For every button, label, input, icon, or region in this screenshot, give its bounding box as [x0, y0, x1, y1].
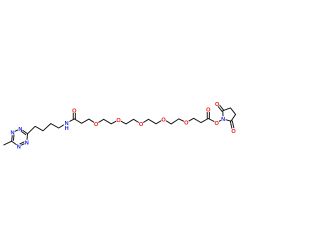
chain tetrazine to NH [28, 123, 67, 134]
tetrazine N2 label [10, 131, 14, 137]
ester C-O bridge bond [208, 119, 216, 123]
ether O2 label [116, 118, 121, 124]
ether O4 label [161, 117, 166, 123]
svg-text:O: O [231, 129, 236, 135]
svg-text:O: O [161, 117, 166, 123]
svg-text:N: N [18, 127, 22, 133]
O-N bond [217, 119, 223, 123]
succinimide bottom O label [231, 129, 236, 135]
svg-text:N: N [17, 145, 21, 151]
tetrazine N5 label [25, 141, 29, 147]
amide O label [72, 109, 77, 115]
PEG chain O4-O5 [164, 119, 187, 124]
amide NH label [65, 121, 69, 132]
tetrazine N4 label [17, 145, 21, 151]
tetrazine ring [12, 129, 28, 147]
label halos [10, 101, 236, 149]
svg-text:O: O [94, 122, 99, 128]
ester C=O double bond [207, 110, 209, 119]
svg-text:O: O [139, 122, 144, 128]
svg-text:O: O [206, 108, 211, 114]
amide C=O double bond [73, 110, 75, 119]
ester bridge O label [214, 121, 219, 127]
ester carbonyl O label [206, 108, 211, 114]
PEG chain O3-O4 [141, 119, 164, 124]
tetrazine N1 label [18, 127, 22, 133]
succinimide top C=O double bond [216, 103, 223, 111]
svg-text:O: O [184, 121, 189, 127]
ether O5 label [184, 121, 189, 127]
chain C(O)-CH2-CH2-O1 [74, 119, 96, 124]
chain O5 to ester carbonyl [186, 118, 208, 122]
succinimide bottom C=O double bond [230, 121, 234, 131]
svg-text:O: O [72, 109, 77, 115]
amide N-C bond [67, 119, 75, 123]
succinimide N label [221, 117, 225, 123]
svg-text:O: O [215, 102, 220, 108]
svg-text:N: N [221, 117, 225, 123]
methyl on tetrazine C3 [4, 141, 12, 145]
svg-text:O: O [214, 121, 219, 127]
succinimide ring [223, 108, 236, 121]
succinimide top O label [215, 102, 220, 108]
svg-text:N: N [10, 131, 14, 137]
PEG chain O2-O3 [119, 119, 141, 124]
PEG chain O1-O2 [96, 119, 118, 124]
svg-text:O: O [116, 118, 121, 124]
svg-text:N: N [25, 141, 29, 147]
svg-text:H: H [65, 126, 69, 132]
ether O1 label [94, 122, 99, 128]
ether O3 label [139, 122, 144, 128]
